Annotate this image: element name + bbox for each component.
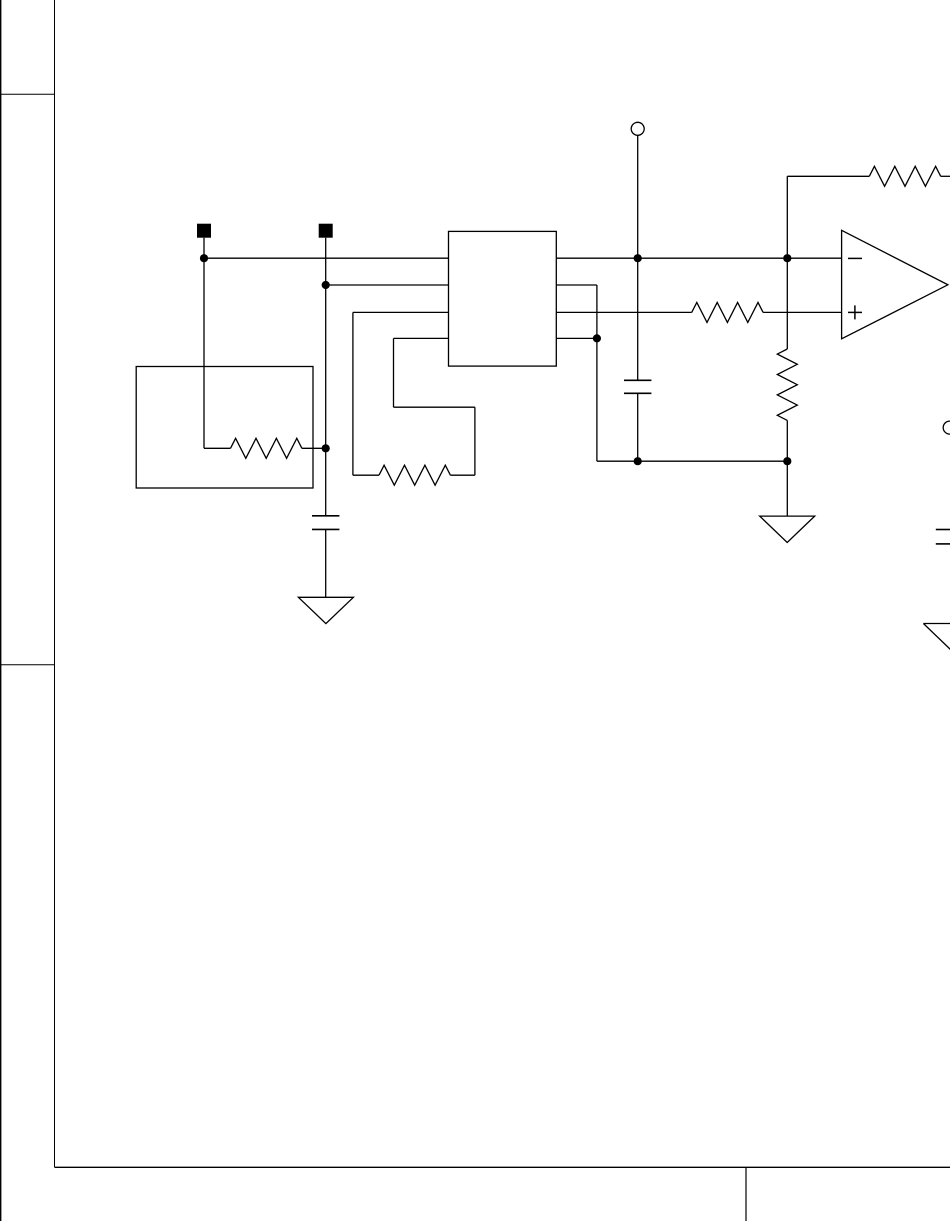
- resistor R4 bottom lead: [786, 420, 788, 461]
- node A junction dot: [200, 254, 208, 262]
- wire U1 pin 8 to R3: [556, 311, 691, 313]
- resistor R2 right lead: [450, 474, 475, 476]
- node D junction dot (pin 7 joins pin 6 net): [593, 334, 601, 342]
- op-amp U2 plus sign horizontal: [848, 311, 862, 313]
- wire node C to U1 pin 2: [326, 284, 449, 286]
- border frame inner left line: [54, 0, 56, 1167]
- node H junction dot (R4 on ground bus): [783, 457, 791, 465]
- resistor R3: [692, 302, 763, 322]
- border frame zone tick row divider top: [0, 93, 55, 95]
- wire node A to U1 pin 1: [204, 257, 449, 259]
- wire U1 pin 7: [556, 337, 597, 339]
- border frame outer left edge: [0, 0, 2, 1221]
- wire ground bus horizontal: [597, 460, 787, 462]
- resistor R1: [231, 438, 302, 458]
- resistor R2: [379, 465, 450, 485]
- wire U1 pin 5 to op-amp inverting input (net OSC): [556, 257, 841, 259]
- node G junction dot (inverting input node): [783, 254, 791, 262]
- resistor R2 left lead: [353, 474, 379, 476]
- IC U1 body: [449, 231, 557, 366]
- capacitor C1 bottom plate: [312, 528, 339, 530]
- op-amp U2 plus sign vertical: [854, 305, 856, 319]
- capacitor C2 top plate: [624, 379, 651, 381]
- capacitor C3 top plate (right edge): [936, 529, 950, 531]
- wire U1 pin 3 to feedback loop: [353, 311, 449, 313]
- op-amp U2 minus sign: [848, 257, 862, 259]
- terminal T1 (open circle): [631, 122, 644, 135]
- wire node A down to R1: [203, 258, 205, 448]
- resistor R1 right lead: [302, 447, 326, 449]
- resistor R3 right lead to op-amp non-inverting input: [763, 311, 842, 313]
- resistor R1 left lead: [204, 447, 231, 449]
- border frame zone tick column divider bottom: [745, 1167, 747, 1221]
- ground symbol G1: [298, 597, 353, 623]
- connector pad P2 (filled square): [319, 224, 333, 238]
- wire U1 pin 6: [556, 284, 597, 286]
- wire node H to ground: [786, 461, 788, 516]
- node E junction dot (T1 on net OSC): [634, 254, 642, 262]
- wire to U1 pin 4: [394, 337, 449, 339]
- ground symbol G3 (right edge, partial): [923, 624, 950, 651]
- resistor R5 right lead (to op-amp output off page): [941, 175, 950, 177]
- node C junction dot: [322, 281, 330, 289]
- wire P2 down through node C and node B to C1: [325, 238, 327, 516]
- wire feedback loop inner vertical: [393, 338, 395, 407]
- capacitor C2 bottom plate: [624, 392, 651, 394]
- resistor R4 (vertical): [777, 349, 797, 420]
- wire pin 6 vertical down: [596, 285, 598, 461]
- wire feedback top horizontal: [787, 175, 869, 177]
- connector pad P1 (filled square): [197, 224, 211, 238]
- wire C2 to ground bus: [637, 393, 639, 461]
- wire feedback node vertical: [786, 176, 788, 349]
- wire feedback loop right vertical: [474, 407, 476, 475]
- op-amp U2: [842, 230, 948, 338]
- border frame bottom line: [55, 1166, 950, 1168]
- wire feedback loop left vertical: [352, 312, 354, 475]
- wire P1 to node A: [203, 238, 205, 259]
- wire C1 to ground: [325, 529, 327, 597]
- node F junction dot (C2 on ground bus): [634, 457, 642, 465]
- wire T1 down to C2: [637, 135, 639, 380]
- capacitor C3 bottom plate (right edge): [936, 543, 950, 545]
- node B junction dot (R1 to C1 net): [322, 444, 330, 452]
- capacitor C1 top plate: [312, 515, 339, 517]
- resistor R5: [869, 166, 940, 186]
- terminal T2 (open circle, right edge): [943, 421, 950, 434]
- crystal outline box Y1: [136, 367, 313, 489]
- ground symbol G2: [760, 516, 815, 542]
- border frame zone tick row divider middle: [0, 664, 55, 666]
- wire feedback loop upper horizontal: [394, 406, 475, 408]
